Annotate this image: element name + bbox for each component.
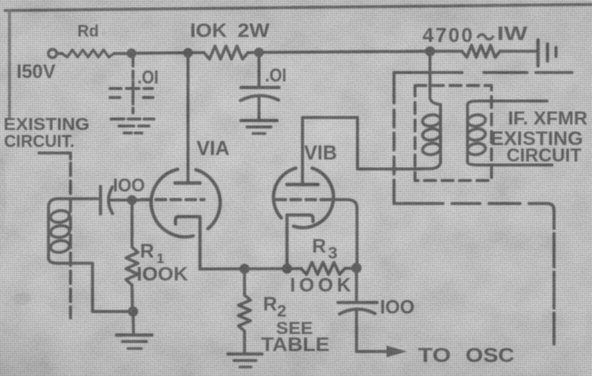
V1B plate bar [287, 183, 318, 186]
outer dashed path bottom edge [394, 202, 443, 205]
outer dashed path corner + right edge to osc [529, 204, 554, 229]
resistor R1 100K [131, 200, 134, 247]
V1A cathode [176, 217, 201, 269]
wire to 10K [132, 51, 189, 55]
node V1B cathode [282, 264, 292, 274]
op V1A plate lead [187, 53, 190, 183]
V1A grid (dashed) [132, 199, 140, 202]
capacitor 100 (osc coupling) [355, 268, 358, 302]
inner dashed box (IF xfmr existing) [415, 86, 492, 181]
capacitor 100 (grid coupling) [99, 187, 102, 215]
ground below R1 [132, 312, 136, 334]
wire coil return [93, 310, 134, 313]
border top [5, 5, 592, 11]
inductor xfmr secondary [467, 101, 552, 165]
capacitor .01 (dashed, existing) [110, 58, 154, 133]
resistor 10K 2W [188, 51, 204, 54]
wire cathode rail [200, 267, 301, 270]
node R3 / 100pF / to osc [351, 263, 361, 273]
inductor L existing circuit [49, 199, 98, 312]
resistor Rd [57, 52, 62, 55]
node at 10K left / V1A plate [183, 48, 193, 58]
xfmr primary lead [430, 51, 441, 104]
node V1A grid / R1 / 100pF [127, 195, 137, 205]
wire Rd to node [114, 52, 132, 55]
resistor R3 100K [301, 262, 345, 274]
ground below .01 #2 [241, 119, 277, 122]
V1B grid (dashed) [276, 198, 336, 201]
ground (dashed) below .01 #1 [111, 118, 124, 121]
V1A plate bar [175, 181, 200, 184]
node at 4700 / IF xfmr primary [425, 46, 435, 56]
outer dashed box left edge [392, 73, 395, 104]
inductor xfmr primary [420, 105, 441, 169]
node R1 bottom [128, 306, 138, 316]
V1B plate lead to xfmr [303, 118, 421, 185]
tube V1A envelope [151, 169, 220, 237]
resistor 4700 1W [430, 50, 462, 53]
outer dashed box top edge [394, 71, 462, 74]
resistor R2 SEE TABLE [243, 269, 246, 295]
V1B grid lead to R3 node [336, 200, 357, 268]
terminal 150V input [48, 49, 56, 57]
wire / arrow TO OSC [357, 350, 391, 353]
squiggle ohm mark [478, 34, 494, 39]
V1B cathode [287, 215, 313, 269]
existing circuit boundary [39, 153, 71, 159]
capacitor .01 [258, 52, 261, 87]
ground below R2 [228, 352, 262, 355]
node R2 top [239, 264, 249, 274]
node at Rd/.01 junction [127, 48, 137, 58]
node at 10K right / .01 #2 [254, 48, 264, 58]
tube V1B envelope [273, 168, 333, 228]
ground (rotated) at 4700 [536, 40, 539, 66]
border left [8, 11, 11, 118]
wire 10K to 4700 [259, 51, 430, 52]
